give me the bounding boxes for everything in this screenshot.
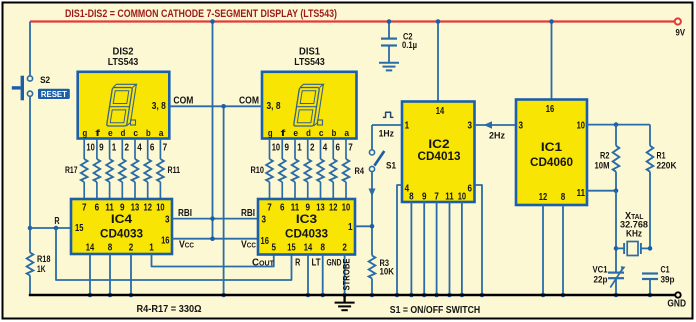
svg-text:2: 2 (310, 142, 315, 153)
svg-text:10: 10 (156, 203, 165, 214)
IC4 pin2 wire to bus (129, 254, 134, 297)
svg-text:8: 8 (409, 192, 414, 203)
switch S1 (369, 150, 396, 172)
svg-text:KHz: KHz (626, 228, 642, 239)
svg-text:c: c (133, 128, 138, 139)
1Hz pulse symbol (383, 112, 394, 117)
svg-text:12: 12 (329, 203, 338, 214)
9V terminal (675, 18, 686, 38)
variable capacitor VC1 22p (593, 265, 626, 296)
label R11 (168, 165, 181, 176)
label LT under IC3 (312, 258, 321, 269)
label GND under IC3 (327, 258, 342, 269)
IC4 pin14 wire to bus (88, 254, 93, 297)
DIS2 decimal point (131, 120, 136, 125)
svg-text:8: 8 (108, 243, 113, 254)
svg-text:R4: R4 (355, 166, 365, 177)
resistor R4 330 ohm (343, 139, 350, 200)
svg-text:10: 10 (272, 142, 281, 153)
resistor R7 330 ohm (304, 139, 311, 200)
svg-text:7: 7 (82, 203, 87, 214)
svg-text:6: 6 (280, 203, 285, 214)
svg-text:9: 9 (99, 142, 104, 153)
IC1 pin 11 label (577, 188, 586, 199)
svg-text:6: 6 (335, 142, 340, 153)
svg-text:IC1: IC1 (541, 140, 563, 154)
svg-text:3: 3 (468, 121, 473, 132)
node Vcc-A (210, 236, 215, 241)
DIS1 segment letters g f e d c b a (268, 128, 350, 139)
svg-text:COM: COM (239, 96, 259, 107)
IC2 pin 6 label (468, 184, 473, 195)
svg-text:IC4: IC4 (111, 212, 133, 226)
svg-text:b: b (146, 128, 151, 139)
DIS1 pin numbers 10 9 1 2 4 6 7 (272, 142, 353, 153)
svg-text:VCC: VCC (179, 239, 195, 250)
resistor R1 220K (647, 125, 677, 249)
node rail-A (210, 19, 215, 24)
label R17 (65, 165, 78, 176)
svg-text:IC3: IC3 (296, 212, 318, 226)
IC1 pin8 wire to bus (561, 205, 566, 297)
svg-text:RESET: RESET (41, 89, 68, 99)
svg-text:10K: 10K (380, 267, 395, 278)
svg-text:R: R (295, 258, 301, 269)
svg-text:GND: GND (327, 258, 342, 269)
wire: IC2 pin 14 to rail (436, 19, 441, 102)
svg-text:LTS543: LTS543 (294, 57, 325, 68)
DIS2 segment letters g f e d c b a (83, 128, 165, 139)
IC3 pin14 wire to bus (LT) (306, 255, 311, 298)
resistor R9 330 ohm (279, 139, 286, 200)
svg-text:7: 7 (434, 192, 439, 203)
svg-text:39p: 39p (661, 275, 675, 286)
svg-text:3, 8: 3, 8 (267, 101, 281, 112)
svg-text:0.1µ: 0.1µ (402, 40, 417, 51)
IC4 pin8 wire to bus (108, 254, 113, 297)
svg-text:7: 7 (348, 142, 353, 153)
IC1 bottom pin numbers 12 8 (539, 192, 566, 203)
DIS1 7-segment digit (294, 84, 324, 126)
IC U3: IC3 CD4033 (258, 199, 355, 255)
label COM left (173, 96, 193, 107)
IC4 pin 3 label (165, 215, 170, 226)
svg-text:DIS1-DIS2 = COMMON CATHODE 7-S: DIS1-DIS2 = COMMON CATHODE 7-SEGMENT DIS… (65, 8, 337, 20)
IC4 bottom pin numbers 14 8 2 1 (86, 243, 154, 254)
wire: IC1 pin11 to R2 bottom (587, 188, 618, 193)
svg-text:1K: 1K (37, 264, 46, 275)
resistor R18 1K (27, 228, 51, 295)
svg-text:7: 7 (267, 203, 272, 214)
svg-text:e: e (293, 128, 298, 139)
svg-text:13: 13 (131, 203, 140, 214)
svg-text:CD4060: CD4060 (530, 155, 573, 169)
svg-text:6: 6 (95, 203, 100, 214)
label R4 (355, 166, 365, 177)
svg-text:8: 8 (320, 243, 325, 254)
resistor R13 330 ohm (132, 138, 139, 199)
resistor R12 330 ohm (144, 138, 151, 199)
resistor R11 330 ohm (157, 138, 164, 199)
label R10 (251, 165, 265, 176)
note R4-R17 = 330 ohm (137, 303, 202, 315)
svg-text:1: 1 (112, 142, 117, 153)
svg-text:7: 7 (163, 142, 168, 153)
svg-text:9: 9 (422, 192, 427, 203)
IC3 pin 1 label (348, 222, 353, 233)
svg-text:DIS2: DIS2 (113, 47, 134, 58)
svg-text:4: 4 (137, 142, 142, 153)
node B-bus (221, 293, 226, 298)
IC3 bottom pin numbers 5 15 14 8 2 (272, 243, 348, 254)
label STROBE (vertical) (342, 259, 353, 291)
display DIS1 LTS543 (262, 47, 357, 139)
Vcc wire IC4-IC3 (172, 238, 258, 240)
IC1 pin 16 label (546, 104, 555, 115)
label RBI right (241, 208, 255, 219)
svg-text:d: d (121, 128, 126, 139)
IC3 pin 3 label (262, 215, 267, 226)
svg-text:CD4033: CD4033 (100, 226, 143, 240)
svg-text:9V: 9V (676, 28, 686, 39)
IC2 bottom pin numbers 8 9 7 11 10 (409, 192, 466, 203)
IC2 pin 1 label (405, 121, 410, 132)
resistor R6 330 ohm (317, 139, 324, 200)
IC4 pin 16 label (161, 235, 170, 246)
svg-text:e: e (108, 128, 113, 139)
svg-text:14: 14 (304, 243, 313, 254)
svg-text:8: 8 (561, 192, 566, 203)
DIS2 7-segment digit (107, 84, 137, 126)
IC2 pin 4 label (405, 184, 410, 195)
resistor R17 330 ohm (81, 138, 88, 199)
capacitor C2 0.1u (381, 22, 417, 63)
IC2 bottom wires to bus (409, 202, 464, 297)
svg-text:6: 6 (150, 142, 155, 153)
svg-text:220K: 220K (657, 161, 677, 172)
label Vcc right (241, 239, 257, 250)
wire: COM to ground bus (line B) (223, 106, 225, 295)
svg-text:9: 9 (306, 203, 311, 214)
resistor R16 330 ohm (94, 138, 101, 199)
resistor R15 330 ohm (106, 138, 113, 199)
wire: 1Hz node to IC2 pin 1 (372, 124, 402, 126)
svg-text:R: R (54, 216, 60, 227)
label COM right (239, 96, 259, 107)
svg-text:LTS543: LTS543 (108, 57, 139, 68)
svg-text:DIS1: DIS1 (299, 47, 320, 58)
IC2 pin 3 label (468, 121, 473, 132)
svg-text:10: 10 (86, 142, 95, 153)
svg-text:15: 15 (287, 243, 296, 254)
svg-text:VCC: VCC (241, 239, 257, 250)
node R (54, 216, 60, 230)
crystal XTAL 32.768 KHz (616, 211, 650, 256)
svg-text:1: 1 (405, 121, 410, 132)
svg-text:d: d (306, 128, 311, 139)
IC U4: IC4 CD4033 (71, 199, 172, 254)
svg-text:11: 11 (577, 188, 586, 199)
IC3 pin2 wire to bus (STROBE) (342, 255, 347, 298)
svg-text:12: 12 (539, 192, 548, 203)
resistor R3 10K (369, 256, 394, 298)
svg-text:15: 15 (75, 223, 84, 234)
label 2Hz (489, 131, 505, 142)
9V power rail (30, 20, 674, 22)
RESET label (38, 89, 70, 99)
svg-text:2: 2 (125, 142, 130, 153)
wire: R2 bottom to crystal (614, 191, 619, 272)
wire: rail to switch S2 (29, 22, 31, 76)
DIS1 pin 3,8 label (267, 101, 281, 112)
node RBI-A (210, 216, 215, 221)
svg-text:12: 12 (144, 203, 153, 214)
svg-text:RBI: RBI (178, 208, 192, 219)
node C1-bus (648, 293, 653, 298)
svg-text:4: 4 (323, 142, 328, 153)
Cout wire IC3 pin5 to IC4 pin1 (152, 254, 274, 267)
svg-text:22p: 22p (594, 275, 608, 286)
display DIS2 LTS543 (78, 47, 170, 139)
label R under IC3 (295, 258, 301, 269)
svg-text:3: 3 (519, 121, 524, 132)
svg-text:CD4033: CD4033 (285, 226, 328, 240)
IC2 pin6 wire to bus (475, 185, 485, 297)
svg-text:a: a (344, 128, 349, 139)
IC4 top pin numbers 7 6 11 9 13 12 10 (82, 203, 165, 214)
pushbutton S2 (RESET) (12, 75, 50, 100)
wire: R net to IC4 pin 15 (30, 227, 71, 229)
svg-text:10: 10 (458, 192, 467, 203)
svg-text:S1 = ON/OFF SWITCH: S1 = ON/OFF SWITCH (390, 304, 481, 316)
svg-text:R4-R17 = 330Ω: R4-R17 = 330Ω (137, 303, 202, 315)
svg-text:11: 11 (105, 203, 114, 214)
svg-text:11: 11 (291, 203, 300, 214)
wire 2Hz: IC1 pin3 to IC2 pin3 (475, 124, 517, 126)
svg-text:COUT: COUT (252, 258, 275, 269)
svg-text:10M: 10M (595, 161, 610, 172)
wire: IC1 pin10 to R1 (587, 122, 650, 127)
DIS1 decimal point (318, 120, 323, 125)
svg-text:a: a (159, 128, 164, 139)
svg-text:1Hz: 1Hz (379, 129, 395, 140)
label Cout (252, 258, 275, 269)
svg-text:14: 14 (86, 243, 95, 254)
resistor R8 330 ohm (292, 139, 299, 200)
resistor R5 330 ohm (330, 139, 337, 200)
label 1Hz (379, 129, 395, 140)
wire: R net down and across to IC3 pin 15 (56, 228, 292, 280)
svg-text:9: 9 (284, 142, 289, 153)
IC3 pin8 wire to bus (GND) (320, 255, 325, 298)
svg-text:16: 16 (546, 104, 555, 115)
svg-text:S1: S1 (386, 161, 397, 172)
svg-text:g: g (83, 128, 88, 139)
svg-text:S2: S2 (40, 75, 50, 86)
svg-text:6: 6 (468, 184, 473, 195)
IC2 pin4 wire to bus (395, 185, 402, 297)
svg-text:R17: R17 (65, 165, 78, 176)
DIS2 pin 3,8 label (152, 101, 166, 112)
label Vcc left (179, 239, 195, 250)
wire: S2 to R node (29, 96, 31, 228)
wire: rail to RBI/Vcc (line A) (212, 22, 214, 239)
GND terminal (667, 292, 686, 309)
wire: S1 to R3 and bus (371, 172, 373, 256)
IC1 pin 3 label (519, 121, 524, 132)
svg-text:11: 11 (445, 192, 454, 203)
RBI wire IC4-IC3 (172, 218, 258, 220)
svg-text:13: 13 (316, 203, 325, 214)
svg-text:b: b (332, 128, 337, 139)
note S1 = ON/OFF SWITCH (390, 304, 481, 316)
IC4 pin 15 label (75, 223, 84, 234)
wire COM between displays (169, 105, 262, 107)
svg-text:3: 3 (165, 215, 170, 226)
svg-text:10: 10 (342, 203, 351, 214)
resistor R10 330 ohm (266, 139, 273, 200)
svg-text:14: 14 (436, 106, 445, 117)
node: reset junction (28, 226, 33, 231)
svg-text:5: 5 (272, 243, 277, 254)
svg-text:STROBE: STROBE (342, 259, 353, 291)
svg-text:16: 16 (261, 236, 270, 247)
svg-text:g: g (268, 128, 273, 139)
node rail-C2 (387, 19, 392, 24)
IC2 pin 14 label (436, 106, 445, 117)
ground bus (29, 294, 675, 297)
svg-text:LT: LT (312, 258, 321, 269)
svg-text:c: c (319, 128, 324, 139)
node COM-B (221, 104, 226, 109)
svg-text:9: 9 (120, 203, 125, 214)
IC1 pin 10 label (577, 121, 586, 132)
svg-text:1: 1 (348, 222, 353, 233)
capacitor C1 39p (642, 265, 675, 296)
IC1 pin12 wire to bus (541, 205, 546, 297)
svg-text:3, 8: 3, 8 (152, 101, 166, 112)
resistor R14 330 ohm (119, 138, 126, 199)
node VC1-bus (614, 293, 619, 298)
IC U2: IC2 CD4013 (402, 102, 475, 203)
svg-text:RBI: RBI (241, 208, 255, 219)
ground symbol center (335, 295, 355, 310)
svg-text:2: 2 (342, 243, 347, 254)
svg-text:2Hz: 2Hz (489, 131, 505, 142)
wire: IC1 pin 16 to rail (549, 19, 554, 100)
svg-text:1: 1 (297, 142, 302, 153)
svg-text:R11: R11 (168, 165, 181, 176)
arrow left on 2Hz wire (484, 121, 493, 128)
IC3 top pin numbers 7 6 11 9 13 12 10 (267, 203, 350, 214)
label RBI left (178, 208, 192, 219)
svg-text:2: 2 (129, 243, 134, 254)
IC3 pin 16 label (261, 236, 270, 247)
arrow down on strobe wire (369, 189, 376, 197)
svg-text:CD4013: CD4013 (418, 149, 461, 163)
svg-text:COM: COM (173, 96, 193, 107)
resistor R2 10M (595, 125, 620, 191)
DIS2 pin numbers 10 9 1 2 4 6 7 (86, 142, 167, 153)
wire: 1Hz node down to S1 (371, 125, 373, 150)
svg-text:3: 3 (262, 215, 267, 226)
svg-text:10: 10 (577, 121, 586, 132)
node crystal right (648, 246, 653, 251)
wire: IC3 pin1 to strobe wire (355, 224, 374, 229)
svg-text:16: 16 (161, 235, 170, 246)
IC U1: IC1 CD4060 (516, 100, 587, 206)
ground symbol under C2 (379, 63, 399, 71)
svg-text:1: 1 (149, 243, 154, 254)
svg-text:GND: GND (667, 298, 686, 310)
svg-text:R10: R10 (251, 165, 265, 176)
